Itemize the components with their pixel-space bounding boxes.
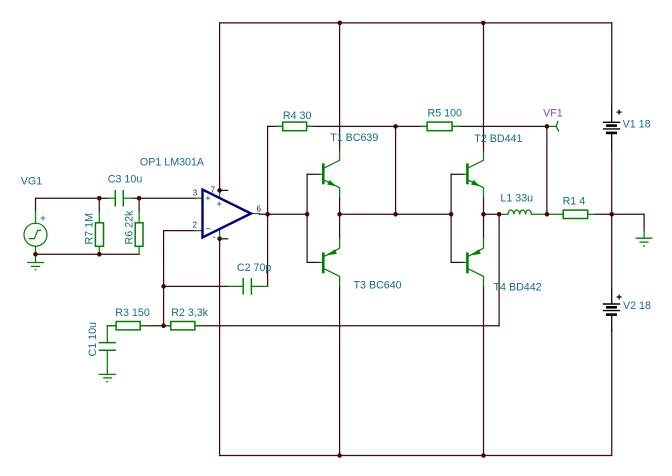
svg-text:6: 6 [257,205,262,214]
svg-text:T3 BC640: T3 BC640 [354,280,402,292]
svg-text:R6 22k: R6 22k [124,210,136,245]
svg-text:V1 18: V1 18 [623,119,651,131]
svg-text:L1 33u: L1 33u [500,193,533,205]
svg-text:VG1: VG1 [21,176,42,188]
svg-text:2: 2 [193,221,198,230]
svg-text:OP1 LM301A: OP1 LM301A [140,157,205,169]
svg-text:T2 BD441: T2 BD441 [474,133,522,145]
svg-text:C3 10u: C3 10u [108,174,143,186]
svg-text:VF1: VF1 [543,107,563,119]
svg-text:3: 3 [193,189,198,198]
svg-text:C2 70p: C2 70p [237,262,272,274]
svg-text:R7 1M: R7 1M [83,213,95,245]
svg-text:R5 100: R5 100 [428,108,463,120]
svg-text:C1 10u: C1 10u [87,322,99,357]
svg-text:T1 BC639: T1 BC639 [330,132,378,144]
svg-text:R3 150: R3 150 [115,307,150,319]
svg-text:T4 BD442: T4 BD442 [494,282,542,294]
svg-text:R2 3,3k: R2 3,3k [171,307,208,319]
svg-text:R1 4: R1 4 [563,195,586,207]
svg-text:R4 30: R4 30 [283,110,312,122]
svg-text:7: 7 [211,186,216,195]
svg-text:V2 18: V2 18 [623,300,651,312]
